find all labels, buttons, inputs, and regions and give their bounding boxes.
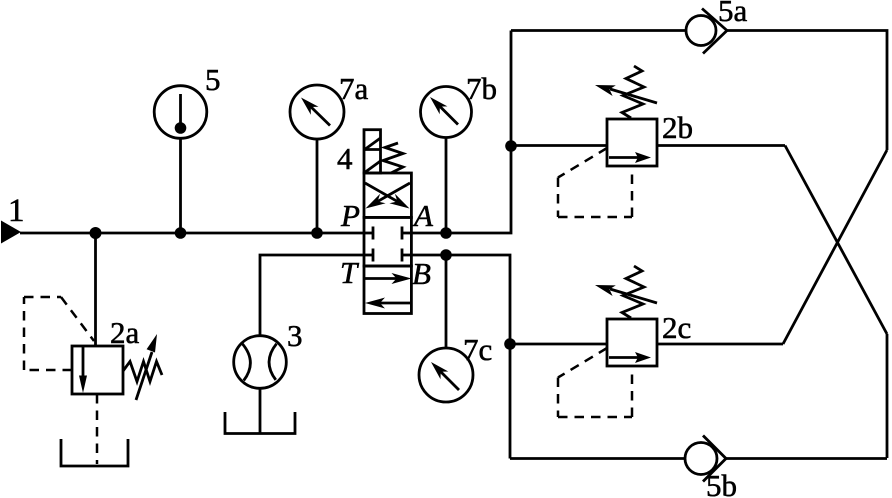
tank under 2a bbox=[61, 439, 128, 466]
pressure gauge 7c bbox=[419, 348, 473, 402]
wire bottom line right bbox=[726, 457, 887, 460]
spring 2a bbox=[123, 362, 162, 382]
valve 4 parallel position bbox=[364, 266, 412, 314]
node junction to 2a bbox=[90, 227, 102, 239]
node junction 2c inlet bbox=[504, 338, 516, 350]
adjust arrow 2a bbox=[136, 334, 157, 400]
flow meter 3 bbox=[234, 336, 287, 389]
svg-text:1: 1 bbox=[8, 193, 25, 229]
svg-text:T: T bbox=[340, 255, 360, 290]
wire bottom line to 5b bbox=[510, 457, 685, 460]
node junction gauge 7b bbox=[440, 227, 452, 239]
adjust arrow 2b bbox=[595, 85, 657, 103]
wire 2b outlet bbox=[657, 144, 785, 147]
svg-text:2a: 2a bbox=[110, 315, 140, 350]
svg-text:B: B bbox=[412, 256, 431, 291]
svg-text:3: 3 bbox=[287, 318, 303, 353]
wire top line right bbox=[727, 31, 887, 151]
svg-text:2c: 2c bbox=[662, 310, 691, 345]
svg-text:P: P bbox=[340, 198, 360, 233]
check valve 5a bbox=[686, 9, 727, 54]
wire top line to 5a bbox=[511, 29, 686, 32]
node junction to gauge 5 bbox=[175, 227, 187, 239]
svg-text:2b: 2b bbox=[662, 110, 693, 145]
adjust arrow 2c bbox=[595, 285, 657, 303]
wire diagonal top-right to 2c out bbox=[783, 150, 887, 344]
wire flow meter to tank bbox=[259, 388, 262, 433]
wire gauge 5 stem bbox=[179, 139, 182, 234]
svg-text:5: 5 bbox=[205, 62, 221, 97]
wire 2b inlet bbox=[511, 144, 607, 147]
pilot dashed line 2c bbox=[558, 348, 632, 417]
valve 4 centre position bbox=[364, 217, 411, 266]
svg-text:7a: 7a bbox=[339, 71, 369, 106]
relief valve 2c bbox=[607, 319, 657, 366]
tank under 3 bbox=[225, 412, 295, 434]
pressure gauge 7a bbox=[290, 85, 344, 139]
relief valve 2a bbox=[72, 346, 123, 394]
wire main P line bbox=[20, 232, 364, 235]
wire branch to 2a bbox=[94, 233, 97, 346]
svg-text:4: 4 bbox=[337, 141, 353, 176]
node junction to gauge 7a bbox=[311, 227, 323, 239]
directional valve 4 solenoid box bbox=[364, 130, 381, 173]
svg-text:7b: 7b bbox=[466, 71, 497, 106]
wire diagonal 2b out to bottom-right bbox=[785, 146, 887, 335]
wire T line bbox=[260, 255, 364, 336]
valve 4 crossed position bbox=[364, 173, 411, 217]
wire A line bbox=[411, 31, 511, 234]
wire B line bbox=[411, 255, 510, 459]
svg-text:5a: 5a bbox=[718, 0, 748, 28]
drain dashed line 2a bbox=[96, 394, 99, 464]
check valve 5b bbox=[685, 436, 726, 482]
wire gauge 7c stem bbox=[445, 255, 448, 348]
svg-text:5b: 5b bbox=[706, 468, 737, 498]
svg-text:7c: 7c bbox=[463, 332, 492, 367]
valve 4 spring bbox=[383, 143, 403, 173]
pressure gauge 7b bbox=[421, 87, 472, 138]
wire right vertical bottom bbox=[886, 334, 889, 458]
spring 2b bbox=[622, 66, 644, 118]
svg-text:A: A bbox=[412, 198, 434, 233]
node junction gauge 7c bbox=[440, 249, 452, 261]
pilot dashed line 2a bbox=[24, 297, 94, 370]
wire 2c outlet bbox=[657, 343, 783, 346]
wire 2c inlet bbox=[510, 343, 607, 346]
thermometer 5 bbox=[154, 86, 207, 139]
wire gauge 7a stem bbox=[316, 139, 319, 233]
node junction 2b inlet bbox=[505, 140, 517, 152]
source triangle 1 bbox=[1, 221, 21, 244]
wire gauge 7b stem bbox=[445, 138, 448, 234]
pilot dashed line 2b bbox=[558, 148, 632, 217]
relief valve 2b bbox=[607, 119, 657, 166]
spring 2c bbox=[622, 266, 644, 318]
